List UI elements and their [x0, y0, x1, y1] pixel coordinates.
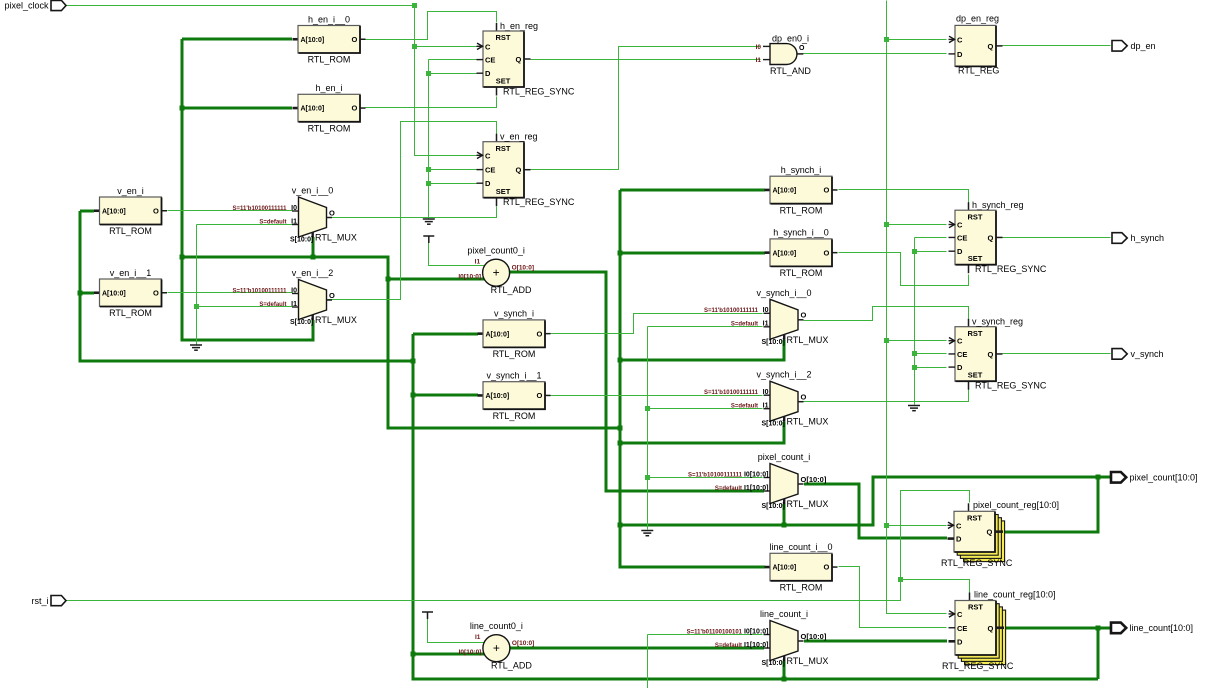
- svg-text:line_count_i: line_count_i: [760, 609, 808, 619]
- bus: y=257 trunk to x=388: [182, 257, 620, 428]
- svg-text:I1: I1: [291, 218, 297, 225]
- svg-text:O[10:0]: O[10:0]: [801, 475, 827, 484]
- bus: pixel_count_i mux output to reg D: [804, 484, 947, 538]
- bus: v_synch_i A feed: [413, 333, 478, 336]
- bus: y=525 trunk to pixel_count_reg Q riser: [620, 477, 1111, 525]
- wire: h_en_reg Q to AND I1: [531, 59, 761, 61]
- output port h_synch: [1112, 233, 1164, 244]
- wire: v_synch mux O to v_synch_reg RST: [804, 307, 969, 321]
- bus: h_en_i__0 A feed: [182, 38, 292, 41]
- svg-text:C: C: [957, 221, 963, 230]
- svg-text:RTL_AND: RTL_AND: [770, 66, 811, 76]
- AND gate dp_en0_i (RTL_AND): [756, 33, 812, 76]
- mux v_synch_i__2 (RTL_MUX): [704, 370, 828, 428]
- wire: pixel_clock to clock spine x=414: [67, 6, 477, 156]
- svg-text:CE: CE: [485, 166, 495, 175]
- mux line_count_i (RTL_MUX): [687, 609, 829, 667]
- svg-text:Q: Q: [988, 233, 994, 242]
- svg-text:S[10:0]: S[10:0]: [762, 421, 785, 428]
- wire: h_synch_i O to h_synch_reg RST: [839, 190, 969, 203]
- wire: clock to pixel_count_reg C: [887, 525, 947, 527]
- svg-text:RTL_REG_SYNC: RTL_REG_SYNC: [503, 197, 575, 207]
- svg-text:I0[10:0]: I0[10:0]: [744, 471, 769, 478]
- input port pixel_clock: [4, 0, 66, 10]
- adder pixel_count0_i (RTL_ADD): [458, 246, 534, 296]
- wire: const0 net h_synch/v_synch CE,D: [915, 237, 947, 239]
- ROM h_synch_i__0: [765, 228, 838, 278]
- power (const1): [423, 236, 434, 243]
- svg-text:rst_i: rst_i: [31, 596, 48, 606]
- svg-text:I0: I0: [763, 389, 769, 396]
- bus: line count net x=80 (v_en ROM address): [80, 210, 94, 213]
- svg-text:RTL_REG_SYNC: RTL_REG_SYNC: [503, 86, 575, 96]
- svg-text:I0[10:0]: I0[10:0]: [459, 649, 482, 656]
- wire: v_synch_i__1 O to v_synch mux2 I0: [551, 395, 763, 397]
- ground (const0): [908, 406, 920, 411]
- svg-text:RTL_ROM: RTL_ROM: [308, 123, 351, 133]
- wire: v_en_i__0 mux O to v_en_reg SET and RST: [304, 207, 497, 218]
- svg-text:S=11'b10100111111: S=11'b10100111111: [704, 308, 759, 314]
- svg-text:I1: I1: [756, 57, 762, 64]
- wire: v_synch mux2 O to v_synch_reg SET: [804, 389, 969, 402]
- register h_synch_reg (RTL_REG_SYNC): [949, 200, 1047, 274]
- svg-text:CE: CE: [957, 233, 967, 242]
- svg-text:dp_en: dp_en: [1131, 41, 1156, 51]
- bus: branch to h_en_i A: [182, 107, 292, 110]
- svg-text:S[10:0]: S[10:0]: [762, 339, 785, 346]
- svg-text:CE: CE: [957, 350, 967, 359]
- svg-text:I0[10:0]: I0[10:0]: [744, 628, 769, 635]
- wire: v_en_reg Q to AND I0: [531, 47, 761, 170]
- svg-text:Q: Q: [516, 55, 522, 64]
- bus: h_synch_i__0 A feed: [620, 252, 765, 255]
- svg-text:CE: CE: [485, 56, 495, 65]
- wire: v_en_i O to mux I0: [168, 210, 293, 212]
- wire: const0 to line mux I0: [648, 634, 763, 636]
- svg-text:S=default: S=default: [731, 404, 758, 410]
- svg-text:S=default: S=default: [715, 486, 742, 492]
- svg-text:S=11'b10100111111: S=11'b10100111111: [704, 390, 759, 396]
- svg-text:RTL_MUX: RTL_MUX: [787, 656, 829, 666]
- wire: rst_i to count reg RSTs: [67, 491, 970, 601]
- svg-text:O: O: [801, 393, 807, 402]
- wire: clock to dp_en_reg C: [887, 39, 947, 41]
- svg-text:RST: RST: [496, 144, 511, 153]
- svg-text:O: O: [537, 329, 543, 338]
- wire: h_synch_i__0 O to h_synch_reg SET: [839, 253, 969, 286]
- output port line_count[10:0]: [1111, 623, 1193, 634]
- svg-text:A[10:0]: A[10:0]: [301, 106, 325, 113]
- svg-text:S=default: S=default: [715, 643, 742, 649]
- bus: line_count_i mux select drop: [783, 661, 786, 679]
- svg-text:RST: RST: [968, 212, 983, 221]
- svg-text:I0: I0: [291, 287, 297, 294]
- svg-text:RTL_ADD: RTL_ADD: [491, 285, 532, 295]
- wire: rst branch to line_count_reg RST: [901, 580, 970, 593]
- mux v_en_i__0 (RTL_MUX): [233, 186, 357, 244]
- svg-text:O: O: [824, 563, 830, 572]
- register dp_en_reg (RTL_REG): [949, 14, 1003, 76]
- wire: dp_en_reg Q to port: [1003, 45, 1111, 47]
- svg-text:C: C: [956, 521, 962, 530]
- register h_en_reg (RTL_REG_SYNC): [477, 21, 575, 97]
- svg-text:h_en_i: h_en_i: [315, 83, 342, 93]
- svg-text:SET: SET: [496, 187, 511, 196]
- ROM v_en_i: [94, 186, 167, 236]
- svg-text:O: O: [352, 35, 358, 44]
- ROM v_en_i__1: [94, 268, 167, 318]
- svg-text:+: +: [493, 641, 500, 655]
- svg-text:h_en_reg: h_en_reg: [500, 21, 538, 31]
- svg-text:RTL_REG_SYNC: RTL_REG_SYNC: [942, 661, 1014, 671]
- bus: adder pixel_count0_i output to mux I1: [510, 272, 764, 491]
- svg-text:RST: RST: [967, 514, 982, 523]
- svg-text:h_synch_reg: h_synch_reg: [972, 200, 1024, 210]
- svg-text:I1[10:0]: I1[10:0]: [744, 642, 769, 649]
- svg-text:h_synch_i__0: h_synch_i__0: [773, 228, 829, 238]
- svg-text:I1: I1: [291, 301, 297, 308]
- bus: v_synch_i__1 A feed: [413, 394, 478, 397]
- svg-text:D: D: [485, 69, 491, 78]
- svg-text:v_synch_i__0: v_synch_i__0: [756, 288, 811, 298]
- bus: v_synch_i__2 mux select: [620, 422, 784, 443]
- svg-text:S=default: S=default: [731, 322, 758, 328]
- svg-text:RST: RST: [496, 33, 511, 42]
- svg-text:v_en_i__2: v_en_i__2: [292, 268, 334, 278]
- ROM v_synch_i__1: [478, 371, 551, 421]
- ROM h_en_i__0: [293, 14, 366, 64]
- svg-text:+: +: [493, 266, 500, 280]
- wire: clock to h_en_reg C: [415, 46, 477, 48]
- ROM h_synch_i: [765, 165, 838, 215]
- wire: v_synch_i O to v_synch mux I0: [551, 314, 763, 334]
- svg-text:D: D: [957, 50, 963, 59]
- svg-text:I0: I0: [756, 44, 762, 51]
- mux pixel_count_i (RTL_MUX): [688, 452, 828, 510]
- wire: h_en_i O to h_en_reg SET: [366, 97, 497, 108]
- svg-text:RTL_REG_SYNC: RTL_REG_SYNC: [975, 381, 1047, 391]
- svg-text:RST: RST: [968, 603, 983, 612]
- wire: h_synch_reg Q to port: [1003, 237, 1111, 239]
- svg-text:S=11'b01100100101: S=11'b01100100101: [687, 629, 743, 635]
- svg-text:O: O: [153, 288, 159, 297]
- svg-text:O: O: [801, 311, 807, 320]
- svg-text:RTL_MUX: RTL_MUX: [787, 499, 829, 509]
- svg-text:I1[10:0]: I1[10:0]: [744, 485, 769, 492]
- bus: pixel_count_i mux select drop: [783, 504, 786, 525]
- bus: line adder output to line mux I1: [510, 647, 764, 650]
- register pixel_count_reg[10:0] (RTL_REG_SYNC, bus): [941, 500, 1059, 568]
- svg-text:RTL_ROM: RTL_ROM: [308, 55, 351, 65]
- bus: line count vertical x=413: [413, 334, 1098, 679]
- svg-text:line_count_i__0: line_count_i__0: [769, 542, 832, 552]
- mux v_synch_i__0 (RTL_MUX): [704, 288, 828, 346]
- svg-text:D: D: [957, 637, 963, 646]
- svg-text:I0[10:0]: I0[10:0]: [458, 274, 481, 281]
- svg-text:pixel_count0_i: pixel_count0_i: [467, 246, 525, 256]
- svg-text:I1: I1: [475, 259, 481, 266]
- svg-text:A[10:0]: A[10:0]: [102, 208, 126, 215]
- svg-text:C: C: [957, 35, 963, 44]
- svg-text:Q: Q: [988, 350, 994, 359]
- output port v_synch: [1112, 349, 1164, 360]
- svg-text:RTL_ROM: RTL_ROM: [493, 411, 536, 421]
- svg-text:C: C: [957, 337, 963, 346]
- bus: pixel feedback net x=182 (h_en ROM address): [182, 39, 313, 340]
- wire: h_en_i__0 O to h_en_reg RST: [366, 12, 497, 40]
- svg-text:O: O: [153, 206, 159, 215]
- svg-text:C: C: [485, 42, 491, 51]
- bus: line adder I0 feed: [413, 653, 484, 656]
- svg-text:v_synch_reg: v_synch_reg: [972, 317, 1023, 327]
- svg-text:Q: Q: [988, 624, 994, 633]
- svg-text:O: O: [824, 248, 830, 257]
- svg-text:CE: CE: [957, 624, 967, 633]
- svg-text:line_count_reg[10:0]: line_count_reg[10:0]: [974, 589, 1056, 599]
- svg-text:Q: Q: [988, 42, 994, 51]
- svg-text:v_synch_i__1: v_synch_i__1: [486, 371, 541, 381]
- svg-text:S[10:0]: S[10:0]: [762, 503, 785, 510]
- svg-text:S[10:0]: S[10:0]: [290, 237, 313, 244]
- svg-text:pixel_clock: pixel_clock: [4, 1, 49, 11]
- svg-text:RTL_ROM: RTL_ROM: [109, 308, 152, 318]
- wire: v_en_i__2 mux O riser: [328, 218, 401, 300]
- svg-text:RTL_MUX: RTL_MUX: [315, 233, 357, 243]
- svg-text:v_en_i: v_en_i: [117, 186, 144, 196]
- svg-text:dp_en0_i: dp_en0_i: [772, 33, 809, 43]
- svg-text:S[10:0]: S[10:0]: [290, 319, 313, 326]
- svg-text:O: O: [329, 291, 335, 300]
- mux v_en_i__2 (RTL_MUX): [233, 268, 357, 326]
- wire: clock to v_synch_reg C: [887, 340, 947, 342]
- svg-text:S=11'b10100111111: S=11'b10100111111: [233, 206, 288, 212]
- wire: const0 x=647 to mux I1/I0 pins: [648, 326, 763, 328]
- svg-text:line_count0_i: line_count0_i: [470, 621, 523, 631]
- bus: adder pixel_count0_i I0 branch: [388, 278, 484, 281]
- wire: const0 to v_en mux I1 pins: [197, 224, 293, 226]
- wire: const1 to line adder I1: [428, 619, 486, 643]
- svg-text:RTL_ROM: RTL_ROM: [109, 226, 152, 236]
- svg-text:A[10:0]: A[10:0]: [102, 290, 126, 297]
- wire: const1 to pixel adder I1: [429, 243, 486, 266]
- svg-text:I1: I1: [475, 634, 481, 641]
- svg-text:I0: I0: [763, 307, 769, 314]
- register line_count_reg[10:0] (RTL_REG_SYNC, bus): [942, 589, 1056, 671]
- bus: pixel_count_reg Q to port: [1003, 477, 1098, 532]
- svg-text:v_synch: v_synch: [1131, 349, 1164, 359]
- svg-text:A[10:0]: A[10:0]: [773, 565, 797, 572]
- wire: line_count_i__0 O to line_count_reg CE: [839, 567, 947, 628]
- svg-text:pixel_count_reg[10:0]: pixel_count_reg[10:0]: [973, 500, 1059, 510]
- svg-text:SET: SET: [968, 371, 983, 380]
- svg-text:D: D: [957, 363, 963, 372]
- svg-text:C: C: [485, 151, 491, 160]
- svg-text:C: C: [957, 610, 963, 619]
- svg-text:line_count[10:0]: line_count[10:0]: [1130, 623, 1194, 633]
- svg-text:I0: I0: [291, 205, 297, 212]
- svg-text:I1: I1: [763, 403, 769, 410]
- svg-text:Q: Q: [516, 166, 522, 175]
- svg-text:O[10:0]: O[10:0]: [801, 632, 827, 641]
- wire: const0 net CE/D h_en_reg v_en_reg: [429, 59, 477, 61]
- svg-text:RTL_ROM: RTL_ROM: [780, 582, 823, 592]
- bus: branch to v_en_i__1 A: [80, 292, 94, 295]
- svg-text:S=11'b10100111111: S=11'b10100111111: [233, 288, 288, 294]
- svg-text:S[10:0]: S[10:0]: [762, 660, 785, 667]
- svg-text:SET: SET: [968, 254, 983, 263]
- svg-text:RTL_REG_SYNC: RTL_REG_SYNC: [941, 558, 1013, 568]
- svg-text:O: O: [352, 104, 358, 113]
- wire: v_en_i__1 O to mux I0: [168, 292, 293, 294]
- svg-text:pixel_count[10:0]: pixel_count[10:0]: [1130, 473, 1198, 483]
- svg-text:RTL_REG: RTL_REG: [958, 66, 999, 76]
- bus: line_count_reg Q to port and feedback: [1005, 627, 1111, 630]
- output port dp_en: [1112, 41, 1156, 52]
- svg-text:h_en_i__0: h_en_i__0: [308, 14, 350, 24]
- svg-text:h_synch: h_synch: [1131, 233, 1165, 243]
- svg-text:SET: SET: [496, 76, 511, 85]
- wire: clock spine x=886 from top: [887, 1, 947, 614]
- svg-text:O: O: [799, 45, 805, 52]
- wire: AND O to dp_en_reg D: [803, 53, 947, 55]
- svg-text:v_synch_i: v_synch_i: [494, 309, 534, 319]
- svg-text:D: D: [956, 535, 962, 544]
- svg-text:O[10:0]: O[10:0]: [512, 264, 534, 271]
- svg-text:A[10:0]: A[10:0]: [773, 250, 797, 257]
- ROM h_en_i: [293, 83, 366, 133]
- svg-text:A[10:0]: A[10:0]: [773, 188, 797, 195]
- svg-text:Q: Q: [987, 528, 993, 537]
- svg-text:RTL_MUX: RTL_MUX: [787, 417, 829, 427]
- svg-text:v_en_reg: v_en_reg: [500, 132, 538, 142]
- bus: v_synch_i__0 mux select: [620, 340, 784, 360]
- svg-text:D: D: [485, 179, 491, 188]
- svg-text:RST: RST: [968, 329, 983, 338]
- ground (const0): [190, 345, 202, 350]
- svg-text:dp_en_reg: dp_en_reg: [956, 14, 999, 24]
- svg-text:D: D: [957, 247, 963, 256]
- bus: v_en_i__0 mux select drop: [312, 237, 315, 257]
- svg-text:h_synch_i: h_synch_i: [781, 165, 822, 175]
- ground (const0): [423, 219, 435, 224]
- svg-text:I1: I1: [763, 321, 769, 328]
- svg-text:v_en_i__0: v_en_i__0: [292, 186, 334, 196]
- register v_synch_reg (RTL_REG_SYNC): [949, 317, 1047, 391]
- svg-text:v_synch_i__2: v_synch_i__2: [756, 370, 811, 380]
- bus: x=620 vertical pixel net: [620, 190, 765, 567]
- svg-text:pixel_count_i: pixel_count_i: [758, 452, 811, 462]
- bus: line_count_i mux output to reg D: [804, 640, 947, 643]
- register v_en_reg (RTL_REG_SYNC): [477, 132, 575, 208]
- bus: h_synch_i A feed: [620, 189, 765, 192]
- power (const1): [422, 612, 433, 619]
- svg-text:S=11'b10100111111: S=11'b10100111111: [688, 472, 743, 478]
- svg-text:A[10:0]: A[10:0]: [301, 37, 325, 44]
- svg-text:RTL_ROM: RTL_ROM: [780, 268, 823, 278]
- wire: v_synch_reg Q to port: [1003, 353, 1111, 355]
- svg-text:v_en_i__1: v_en_i__1: [110, 268, 152, 278]
- svg-text:O: O: [824, 186, 830, 195]
- svg-text:RTL_ADD: RTL_ADD: [491, 661, 532, 671]
- svg-text:RTL_REG_SYNC: RTL_REG_SYNC: [975, 264, 1047, 274]
- ROM v_synch_i: [478, 309, 551, 359]
- output port pixel_count[10:0]: [1111, 472, 1198, 483]
- svg-text:S=default: S=default: [259, 302, 286, 308]
- ROM line_count_i__0: [765, 542, 838, 592]
- svg-text:S=default: S=default: [259, 219, 286, 225]
- ground (const0): [641, 531, 653, 536]
- input port rst_i: [31, 596, 66, 606]
- svg-text:RTL_MUX: RTL_MUX: [315, 315, 357, 325]
- wire: clock to h_synch_reg C: [887, 224, 947, 226]
- svg-text:RTL_ROM: RTL_ROM: [493, 349, 536, 359]
- svg-text:O: O: [329, 208, 335, 217]
- svg-text:O: O: [537, 391, 543, 400]
- svg-text:RTL_MUX: RTL_MUX: [787, 335, 829, 345]
- adder line_count0_i (RTL_ADD): [459, 621, 535, 671]
- svg-text:O[10:0]: O[10:0]: [512, 640, 534, 647]
- svg-text:RTL_ROM: RTL_ROM: [780, 205, 823, 215]
- svg-text:A[10:0]: A[10:0]: [486, 331, 510, 338]
- svg-text:A[10:0]: A[10:0]: [486, 393, 510, 400]
